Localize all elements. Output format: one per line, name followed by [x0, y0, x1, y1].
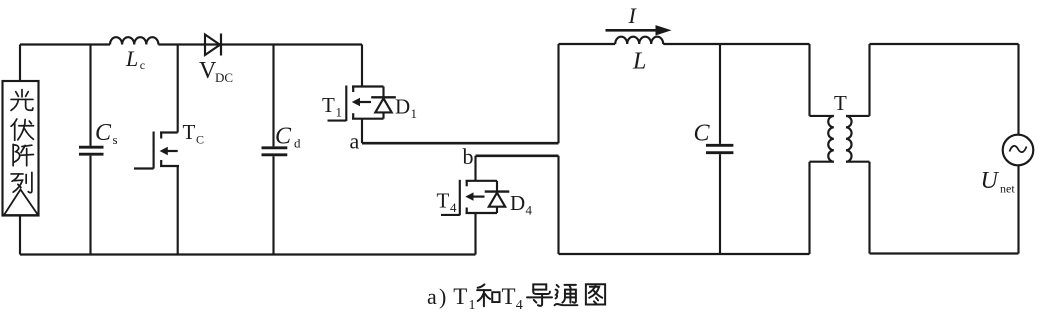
- wire left side up: [868, 44, 870, 116]
- secondary bottom jog: [846, 161, 870, 163]
- svg-text:net: net: [1000, 182, 1015, 196]
- svg-text:L: L: [632, 49, 646, 75]
- svg-text:s: s: [113, 132, 118, 147]
- transistor TC (MOSFET): [134, 45, 179, 255]
- transformer T: [810, 44, 870, 254]
- svg-text:a: a: [427, 284, 437, 309]
- secondary top jog: [846, 115, 870, 117]
- svg-text:D: D: [395, 95, 410, 119]
- svg-text:4: 4: [526, 203, 533, 218]
- capacitor Cs plates: [79, 147, 104, 154]
- wire top rail right section: [870, 43, 1019, 45]
- capacitor Cs top lead: [89, 45, 91, 146]
- capacitor Cd top lead: [272, 45, 274, 147]
- diode D4: [485, 181, 510, 213]
- svg-text:T: T: [183, 120, 196, 144]
- wire bottom rail left section: [20, 253, 476, 255]
- svg-text:C: C: [196, 133, 204, 147]
- node b wire: [476, 155, 559, 158]
- inductor L: [615, 37, 663, 44]
- svg-text:T: T: [322, 93, 335, 117]
- wire left side upper: [557, 44, 559, 143]
- caption: [427, 284, 605, 312]
- wire left side down: [868, 162, 870, 254]
- capacitor Cs bottom lead: [89, 156, 91, 255]
- wire bottom rail right section: [870, 252, 1019, 254]
- svg-text:C: C: [95, 120, 112, 146]
- diode VDC: [205, 34, 221, 56]
- svg-text:DC: DC: [215, 70, 233, 85]
- PV array box: [3, 81, 39, 216]
- wire top rail left section: [20, 43, 110, 45]
- svg-text:c: c: [140, 58, 145, 72]
- svg-text:T: T: [834, 91, 847, 115]
- svg-text:d: d: [294, 136, 301, 151]
- svg-text:T: T: [502, 284, 516, 309]
- svg-text:C: C: [275, 124, 292, 150]
- svg-text:b: b: [463, 144, 474, 169]
- primary winding: [828, 116, 834, 162]
- svg-text:1: 1: [469, 298, 476, 312]
- svg-text:1: 1: [411, 106, 418, 121]
- middle filter section: [559, 37, 810, 254]
- PV triangle symbol: [4, 190, 38, 216]
- grid-side loop: [870, 44, 1034, 254]
- inductor Lc: [110, 37, 158, 44]
- svg-text:): ): [439, 284, 446, 309]
- wire top rail after L: [663, 43, 809, 45]
- wire PV top lead: [19, 45, 21, 82]
- svg-text:4: 4: [450, 200, 457, 215]
- svg-text:a: a: [350, 129, 360, 154]
- diode D1: [371, 87, 396, 119]
- wire top rail after Lc: [158, 43, 362, 45]
- svg-text:1: 1: [336, 105, 343, 120]
- capacitor C plates: [706, 145, 733, 152]
- wire left side lower: [557, 156, 559, 254]
- PV array vertical text: [11, 90, 33, 193]
- svg-text:4: 4: [516, 298, 523, 312]
- node a wire: [362, 142, 559, 145]
- capacitor Cd bottom lead: [272, 156, 274, 254]
- wire right side lower of middle section: [808, 162, 810, 254]
- svg-text:T: T: [437, 189, 450, 213]
- current arrow I: [606, 29, 659, 32]
- primary bottom jog: [810, 161, 834, 163]
- wire right side above source: [1017, 44, 1019, 135]
- wire top rail to L: [559, 43, 616, 45]
- capacitor C top lead: [719, 44, 721, 144]
- secondary winding: [846, 116, 852, 162]
- AC source Unet circle: [1003, 135, 1034, 166]
- wire right side below source: [1017, 165, 1019, 253]
- svg-text:D: D: [510, 191, 525, 215]
- capacitor Cd plates: [262, 148, 288, 155]
- svg-text:C: C: [694, 121, 711, 147]
- primary top jog: [810, 115, 834, 117]
- wire PV bottom lead: [19, 216, 21, 255]
- transistor T4 (MOSFET): [441, 156, 497, 255]
- capacitor C bottom lead: [719, 154, 721, 254]
- transistor T1 (MOSFET): [328, 45, 384, 144]
- svg-text:L: L: [125, 46, 138, 71]
- svg-text:T: T: [453, 284, 467, 309]
- svg-text:U: U: [981, 168, 1000, 194]
- wire bottom rail: [559, 253, 810, 255]
- wire right side upper of middle section: [808, 44, 810, 116]
